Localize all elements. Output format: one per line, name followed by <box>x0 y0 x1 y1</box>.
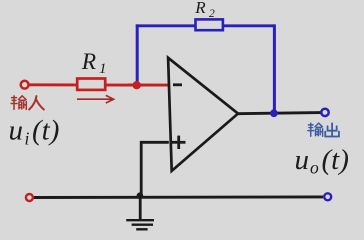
svg-text:(t): (t) <box>32 115 59 147</box>
wire: blue riser down to output node <box>273 24 276 113</box>
wire: bottom ground rail <box>34 195 323 199</box>
output terminal (blue open circle) <box>321 109 328 116</box>
wire: blue riser from node A up to feedback rail <box>136 24 139 86</box>
bottom-left terminal (red open circle) <box>26 194 33 201</box>
wire: op-amp output to output terminal <box>237 113 321 114</box>
current direction arrow under R1 <box>77 95 114 103</box>
svg-text:o: o <box>310 158 319 178</box>
node A (inverting input junction, red) <box>133 81 141 89</box>
resistor R2 <box>196 19 223 30</box>
label 输出 (output) <box>308 123 339 136</box>
op-amp non-inverting input "+" sign <box>172 136 186 149</box>
wire: red input wire from input terminal to op-amp inverting input <box>29 83 169 86</box>
node C (ground junction, black) <box>137 192 144 199</box>
wire: blue top feedback rail through R2 <box>136 24 275 27</box>
svg-text:u: u <box>295 144 310 176</box>
op-amp inverting input "-" sign <box>173 83 182 86</box>
svg-text:u: u <box>9 115 24 147</box>
input terminal (red open circle) <box>21 81 29 89</box>
svg-text:i: i <box>25 129 30 149</box>
svg-text:1: 1 <box>99 61 107 77</box>
svg-text:R: R <box>81 49 96 75</box>
bottom-right terminal (blue open circle) <box>324 193 331 200</box>
svg-text:(t): (t) <box>322 144 349 176</box>
op-amp U1 triangle <box>168 58 238 171</box>
svg-text:2: 2 <box>209 8 215 20</box>
resistor R1 <box>77 79 105 90</box>
ground symbol <box>126 220 154 229</box>
svg-text:R: R <box>194 0 206 17</box>
node B (output junction, blue) <box>270 109 278 117</box>
wire: non-inverting input wire to ground node <box>141 142 169 195</box>
label 输入 (input) <box>11 96 44 110</box>
wire: ground stub <box>139 196 142 220</box>
